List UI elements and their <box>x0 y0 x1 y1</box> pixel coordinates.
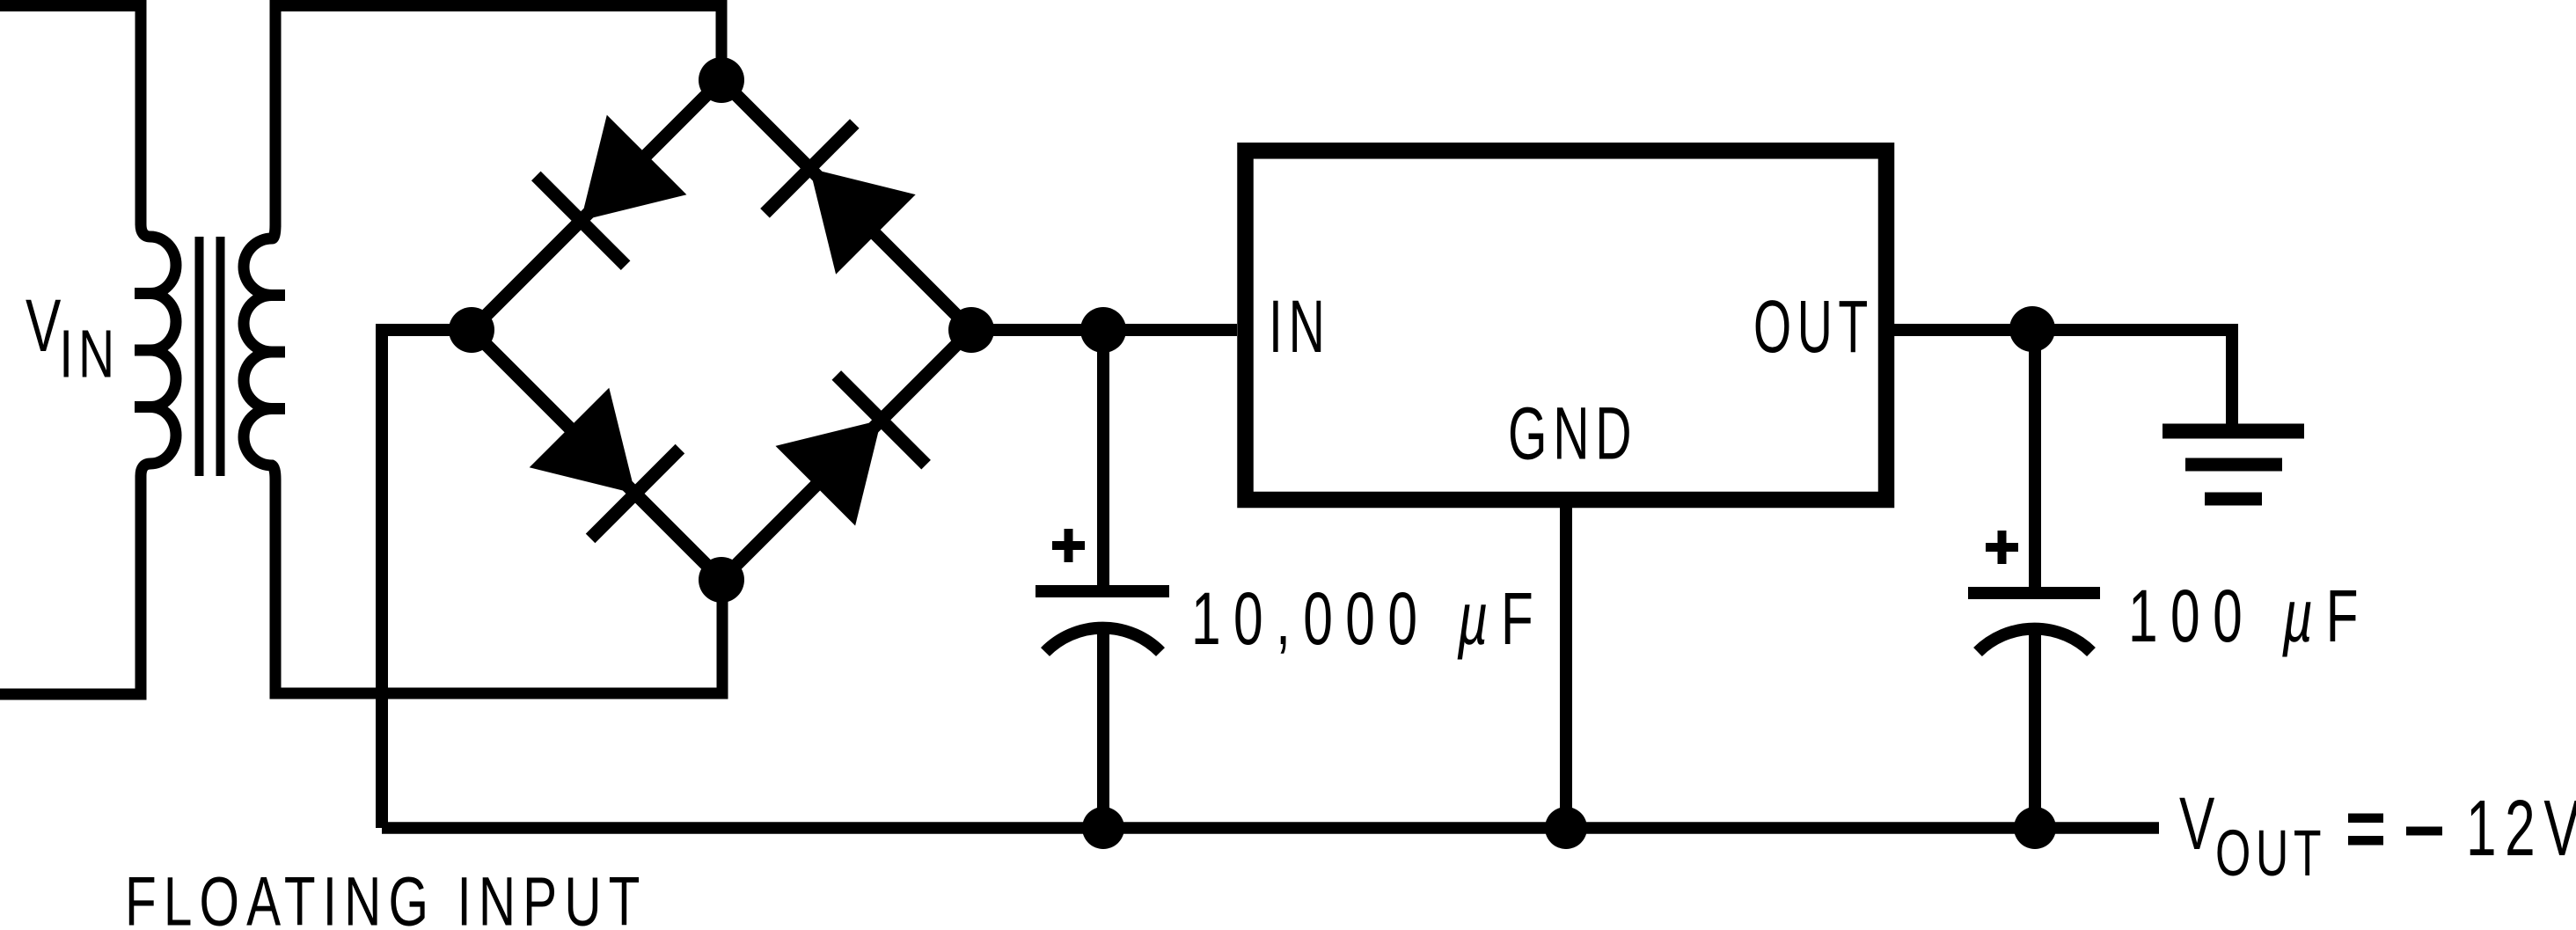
svg-text:OUT: OUT <box>1753 287 1874 369</box>
secondary winding tick 1 <box>255 289 285 301</box>
svg-text:10,000 µF: 10,000 µF <box>1191 577 1546 660</box>
node bridge top <box>699 57 744 103</box>
wire bridge right node to regulator IN <box>971 324 1237 336</box>
primary winding tick 1 <box>135 288 163 299</box>
wire output node down to capacitor C2 <box>2029 330 2041 591</box>
wire primary top (from left edge to transformer primary) <box>0 6 141 226</box>
wire bottom rail (negative output) <box>382 822 2159 834</box>
diode D2 (top-right arm, cathode toward top node) <box>765 124 916 275</box>
wire input node down to capacitor C1 <box>1097 330 1109 588</box>
diode D1 (top-left arm, cathode toward left node) <box>536 115 686 266</box>
label VOUT = -12V <box>2179 782 2576 890</box>
wire primary bottom (to left edge) <box>0 476 141 694</box>
wire regulator OUT to output node <box>1893 324 2035 336</box>
svg-text:100 µF: 100 µF <box>2128 575 2371 657</box>
wire secondary bottom (down, right, up to bridge bottom node) <box>275 480 722 693</box>
primary winding tick 2 <box>135 345 163 356</box>
svg-text:OUT: OUT <box>2215 816 2326 890</box>
wire capacitor C2 to bottom rail <box>2029 633 2041 828</box>
diode D4 (bottom-right arm, cathode toward right node) <box>776 375 926 525</box>
node input cap junction <box>1080 307 1126 353</box>
wire secondary top (up and right to bridge top node) <box>275 6 721 228</box>
wire output node to ground drop <box>2035 330 2232 425</box>
svg-text:12V: 12V <box>2466 785 2576 873</box>
label VIN <box>26 284 120 392</box>
wire bridge segment left to bottom <box>472 330 721 580</box>
node bridge bottom <box>699 557 744 603</box>
capacitor C1 curved plate <box>1045 628 1160 652</box>
svg-text:FLOATING INPUT: FLOATING INPUT <box>125 862 648 930</box>
capacitor C2 curved plate <box>1978 629 2091 652</box>
capacitor C1 plus sign <box>1052 529 1085 562</box>
svg-text:V: V <box>2179 782 2214 865</box>
node bridge right <box>948 307 994 353</box>
transformer core line right <box>216 237 225 476</box>
svg-text:IN: IN <box>1269 286 1331 369</box>
transformer core line left <box>195 237 204 476</box>
capacitor C2 top plate <box>1968 587 2100 599</box>
wire bridge segment bottom to right <box>721 330 971 580</box>
node bridge left <box>449 307 494 353</box>
node C2 bottom rail junction <box>2014 807 2056 849</box>
node GND pin rail junction <box>1545 807 1587 849</box>
primary winding tick 3 <box>135 401 163 413</box>
regulator U1 box <box>1246 150 1887 500</box>
diode D3 (bottom-left arm, cathode toward bottom node) <box>530 388 680 538</box>
secondary winding tick 2 <box>255 347 285 358</box>
transformer T1 secondary winding <box>244 224 275 480</box>
capacitor C1 top plate <box>1036 585 1169 597</box>
secondary winding tick 3 <box>255 403 285 414</box>
svg-text:GND: GND <box>1508 393 1637 476</box>
node C1 bottom rail junction <box>1082 807 1124 849</box>
transformer T1 primary winding <box>141 224 176 476</box>
svg-text:V: V <box>26 284 61 367</box>
wire bridge left node to bottom rail <box>382 330 472 828</box>
ground symbol <box>2163 431 2304 499</box>
capacitor C2 plus sign <box>1986 531 2018 564</box>
svg-text:IN: IN <box>59 317 120 392</box>
node output junction <box>2009 306 2055 352</box>
wire bridge segment top to right <box>721 80 971 330</box>
wire regulator GND pin to bottom rail <box>1560 508 1572 828</box>
wire bridge segment top to left <box>472 80 721 330</box>
wire capacitor C1 to bottom rail <box>1097 630 1109 828</box>
